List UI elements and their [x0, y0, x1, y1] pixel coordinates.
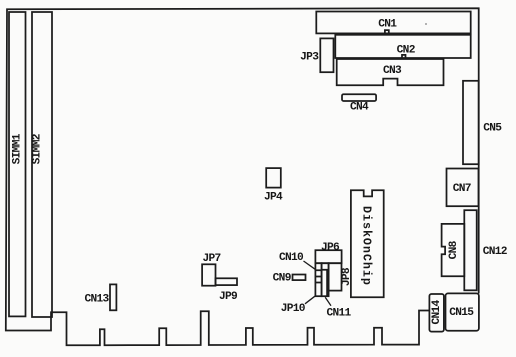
connector CN13: [110, 284, 116, 310]
svg-text:CN1: CN1: [378, 18, 397, 30]
connector CN12: [464, 210, 476, 290]
svg-text:JP7: JP7: [202, 253, 220, 265]
header column left (CN10/JP10): [315, 263, 321, 296]
jumper block JP6: [315, 250, 341, 263]
connector CN4: [342, 94, 376, 101]
header column middle (CN11): [322, 263, 329, 296]
CN2 pin-1 bump: [402, 55, 406, 58]
svg-text:DiskOnChip: DiskOnChip: [359, 206, 373, 286]
leader line CN11: [325, 297, 331, 306]
header dividers: [315, 270, 328, 297]
svg-text:CN12: CN12: [483, 246, 508, 258]
svg-text:SIMM2: SIMM2: [32, 133, 44, 164]
connector CN5: [463, 81, 479, 164]
CN1 pin-1 bump: [385, 30, 389, 33]
svg-text:JP3: JP3: [300, 52, 319, 64]
svg-text:CN14: CN14: [431, 299, 443, 324]
jumper JP7: [202, 264, 215, 285]
svg-text:JP8: JP8: [341, 267, 353, 286]
leader line CN10: [304, 261, 316, 269]
svg-text:CN15: CN15: [449, 307, 474, 319]
svg-text:CN2: CN2: [397, 45, 416, 57]
jumper JP3: [320, 38, 333, 72]
connector CN1: [316, 12, 470, 34]
svg-text:CN13: CN13: [84, 293, 109, 305]
leader line JP10: [305, 296, 315, 304]
scan speck: [425, 23, 427, 25]
svg-text:CN10: CN10: [279, 252, 304, 264]
svg-text:CN5: CN5: [483, 123, 502, 135]
connector CN9 box: [293, 275, 306, 281]
DiskOnChip socket: [351, 190, 384, 297]
connector CN8: [442, 224, 465, 276]
connector CN2: [335, 35, 470, 58]
header block right (JP8 side): [329, 263, 342, 290]
svg-text:JP10: JP10: [281, 303, 306, 315]
svg-text:CN4: CN4: [350, 101, 369, 113]
svg-text:CN7: CN7: [453, 183, 471, 195]
svg-text:CN3: CN3: [383, 65, 402, 77]
svg-text:SIMM1: SIMM1: [11, 133, 23, 164]
svg-text:CN11: CN11: [326, 308, 351, 320]
connector CN3: [337, 59, 444, 85]
svg-text:JP4: JP4: [264, 192, 283, 204]
jumper JP9: [216, 278, 238, 285]
svg-text:CN9: CN9: [273, 272, 292, 284]
svg-text:JP9: JP9: [219, 291, 238, 303]
svg-text:JP6: JP6: [321, 242, 340, 254]
SIMM socket SIMM2: [32, 12, 52, 317]
SIMM socket SIMM1: [9, 12, 26, 316]
connector CN15: [446, 293, 479, 330]
connector CN7: [447, 169, 479, 207]
connector CN14: [429, 294, 444, 332]
svg-text:CN8: CN8: [448, 240, 460, 259]
jumper JP4: [266, 168, 281, 188]
